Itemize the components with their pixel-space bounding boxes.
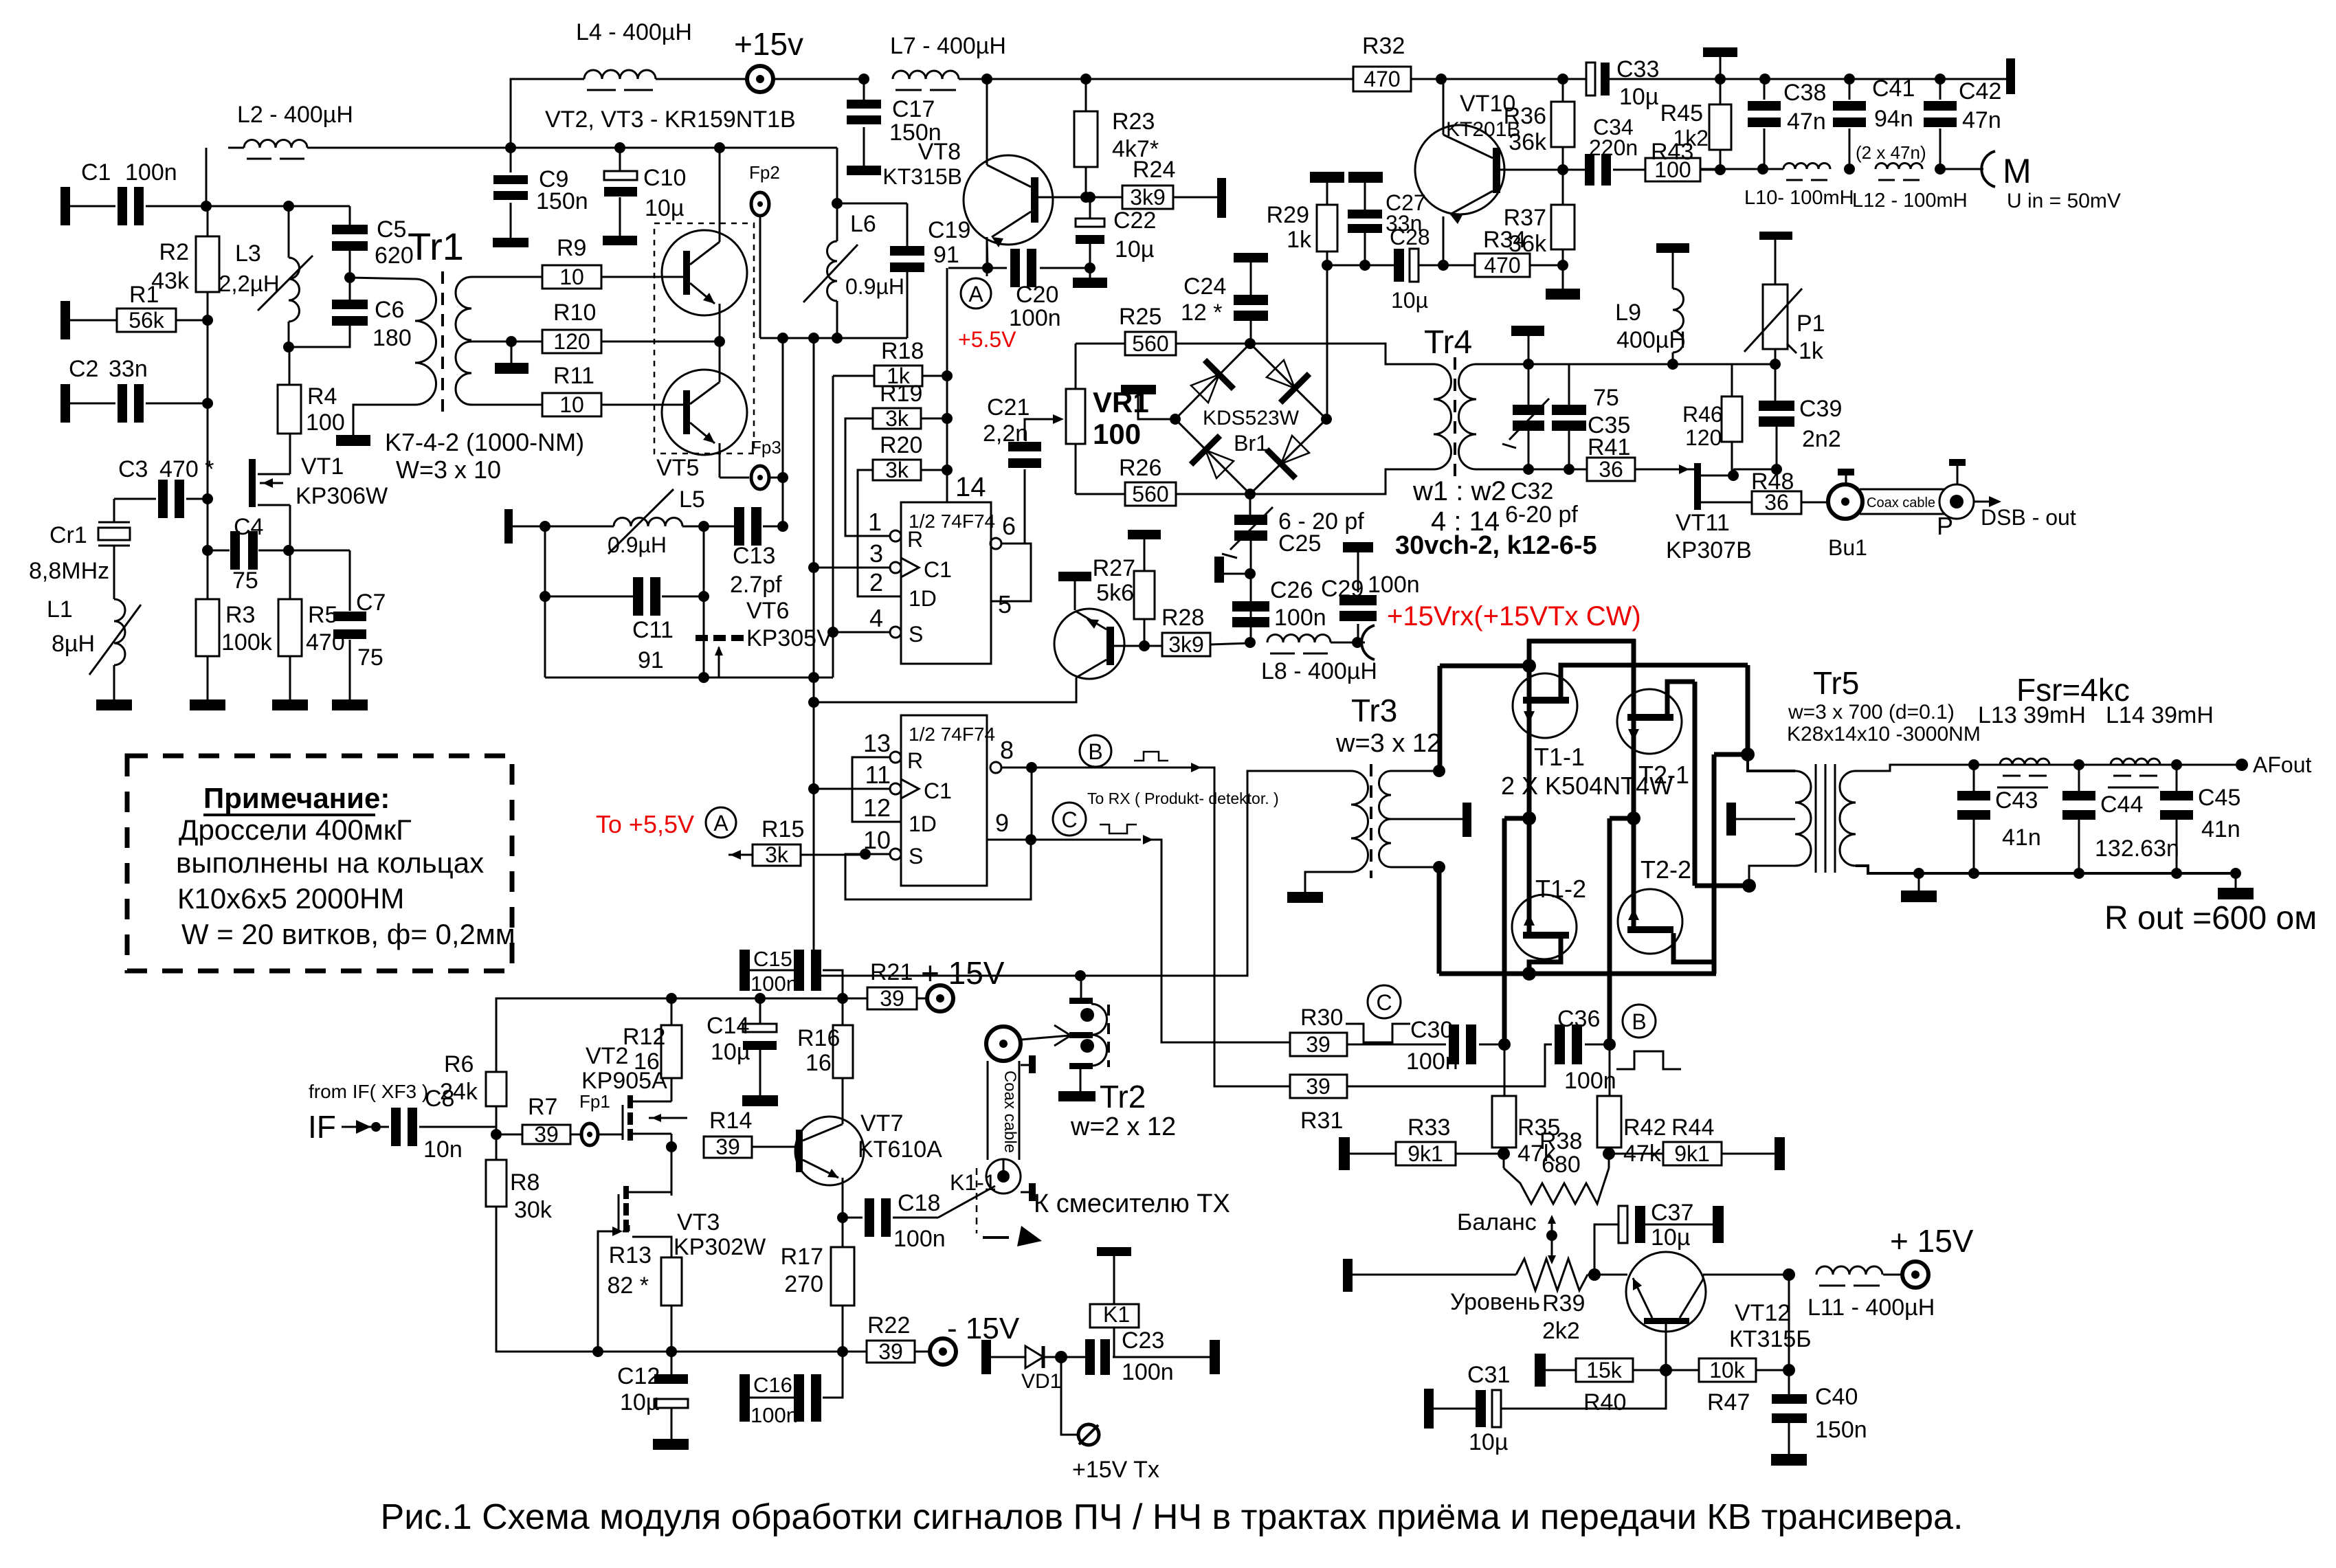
svg-text:S: S xyxy=(909,844,923,869)
wire pin3 to bus xyxy=(814,567,890,569)
svg-text:C37: C37 xyxy=(1651,1200,1693,1226)
capacitor C21 xyxy=(1008,442,1041,451)
ground C12 xyxy=(671,1409,673,1439)
svg-text:3k9: 3k9 xyxy=(1130,185,1166,210)
svg-text:100n: 100n xyxy=(1564,1068,1616,1094)
svg-text:30vch-2, k12-6-5: 30vch-2, k12-6-5 xyxy=(1395,531,1597,560)
svg-text:82 *: 82 * xyxy=(608,1273,649,1299)
wire VT6 column xyxy=(703,526,705,635)
ground R37 xyxy=(1562,265,1564,289)
node R36/R37 base xyxy=(1557,164,1568,175)
wire VT12 collector xyxy=(1702,1275,1704,1279)
svg-text:15k: 15k xyxy=(1586,1358,1623,1382)
svg-text:1/2 74F74: 1/2 74F74 xyxy=(909,724,995,745)
terminal bar above C29 xyxy=(1343,542,1373,552)
svg-text:R27: R27 xyxy=(1093,555,1135,581)
terminal stub left of C2 xyxy=(60,384,70,423)
svg-text:4: 4 xyxy=(869,604,883,632)
transformer Tr4 primary xyxy=(1434,364,1451,469)
node R23 rail xyxy=(1080,74,1091,85)
wire L2 left lead xyxy=(228,147,244,149)
resistor R47 xyxy=(1699,1358,1756,1382)
ground AF left xyxy=(1918,873,1920,891)
svg-text:L8 - 400µH: L8 - 400µH xyxy=(1261,658,1377,684)
wire R10 right xyxy=(601,341,720,343)
wire C21 bottom xyxy=(1024,469,1026,544)
wire VT1 source down xyxy=(289,550,291,568)
node R44/R42/R38 xyxy=(1603,1147,1615,1160)
svg-text:DSB - out: DSB - out xyxy=(1981,505,2076,530)
node VT12 base/R40/R47 xyxy=(1660,1364,1672,1376)
svg-text:3k: 3k xyxy=(765,842,789,867)
bridge diode D2 xyxy=(1267,360,1295,388)
svg-text:30k: 30k xyxy=(514,1197,553,1223)
svg-text:10k: 10k xyxy=(1709,1358,1746,1382)
wire Tr1 sec top to R9 xyxy=(471,276,542,278)
node C36/R42 xyxy=(1603,1038,1616,1051)
svg-text:36k: 36k xyxy=(1509,129,1547,155)
wire R7 left xyxy=(496,1134,522,1136)
wire R26 left xyxy=(1076,493,1125,495)
resistor R12 xyxy=(661,1025,682,1078)
svg-text:S: S xyxy=(909,622,923,647)
svg-text:1k: 1k xyxy=(1799,338,1824,364)
svg-text:120: 120 xyxy=(1685,425,1722,450)
resistor R31 xyxy=(1290,1075,1347,1098)
node C43 bottom xyxy=(1968,868,1979,879)
bus top link xyxy=(1527,639,1636,644)
svg-text:C3: C3 xyxy=(118,456,148,482)
node VT3 arrow tap xyxy=(592,1346,603,1357)
wire to C20 xyxy=(988,267,1007,269)
potentiometer P1 xyxy=(1763,284,1788,349)
capacitor C45 xyxy=(2160,791,2193,800)
wire C29 top xyxy=(1357,552,1359,592)
wire R3 top xyxy=(207,550,209,599)
node R15 junction xyxy=(860,849,871,860)
wire R40 right xyxy=(1633,1369,1666,1371)
capacitor C41 xyxy=(1833,101,1866,111)
svg-text:L1: L1 xyxy=(47,596,73,623)
node VT4 emitter / VT5 collector xyxy=(714,336,725,347)
wire L11 node down xyxy=(1788,1275,1790,1394)
U1 pin 1 R xyxy=(890,530,901,541)
svg-text:11: 11 xyxy=(865,761,891,789)
potentiometer R39 zigzag xyxy=(1516,1259,1588,1290)
wire pin8 out xyxy=(1001,767,1197,769)
terminal bar after R24 xyxy=(1217,178,1226,218)
terminal Fp3 xyxy=(751,466,769,489)
arrow to TX mixer xyxy=(983,1236,1009,1239)
svg-text:C1: C1 xyxy=(924,779,952,803)
svg-text:9k1: 9k1 xyxy=(1408,1141,1443,1166)
svg-text:M: M xyxy=(2003,152,2032,190)
svg-text:Tr4: Tr4 xyxy=(1424,324,1472,361)
coax cable body xyxy=(987,1061,989,1160)
svg-text:w1 : w2: w1 : w2 xyxy=(1412,476,1506,506)
node C14 xyxy=(755,993,766,1004)
node R13 rail xyxy=(666,1346,677,1357)
resistor R17 xyxy=(831,1247,854,1306)
node C44 bottom xyxy=(2073,868,2084,879)
resistor R42 xyxy=(1597,1096,1621,1147)
svg-text:+ 15V: + 15V xyxy=(1890,1223,1974,1259)
wire VT4 collector to rail xyxy=(719,148,721,234)
wire C2 right xyxy=(146,403,208,405)
terminal bar above C27 xyxy=(1348,172,1383,183)
wire R19 left xyxy=(845,418,890,536)
node VT10 rail xyxy=(1436,74,1447,85)
wire R6 top to +15 rail xyxy=(496,998,671,1072)
transformer Tr5 left winding xyxy=(1795,771,1811,866)
node bridge right xyxy=(1321,414,1332,425)
node Fp3 column y492 xyxy=(777,333,788,344)
svg-text:KT610A: KT610A xyxy=(858,1136,942,1163)
wire to M connector xyxy=(1940,168,1983,170)
svg-text:R2: R2 xyxy=(159,239,189,265)
rail +15V lower xyxy=(671,998,867,1000)
bus right down xyxy=(1746,665,1750,754)
wire L4 to +15v xyxy=(656,78,748,80)
wire Tr1 sec bottom to R11 xyxy=(471,404,542,406)
wire VD1 left xyxy=(991,1356,1025,1358)
resistor R27 xyxy=(1134,571,1155,619)
svg-text:6-20 pf: 6-20 pf xyxy=(1505,502,1578,528)
wire Fp3 right xyxy=(769,477,783,479)
wire C13 right xyxy=(763,526,783,528)
svg-text:33n: 33n xyxy=(109,356,148,382)
svg-text:R41: R41 xyxy=(1588,434,1630,460)
terminal bar above L9 xyxy=(1656,243,1689,253)
wire bottom rail to L10 xyxy=(1732,168,1783,170)
svg-text:C16: C16 xyxy=(753,1373,792,1397)
svg-text:C4: C4 xyxy=(234,514,263,540)
wire R8 bottom xyxy=(496,1207,671,1352)
svg-text:10n: 10n xyxy=(423,1136,463,1163)
capacitor C10 electrolytic xyxy=(604,171,637,180)
svg-text:6: 6 xyxy=(1002,512,1016,540)
wire L8 right xyxy=(1331,642,1365,644)
svg-text:W = 20 витков, ф= 0,2мм: W = 20 витков, ф= 0,2мм xyxy=(181,918,515,950)
wire R41 right to VT11 gate xyxy=(1635,469,1694,471)
wire C7 top xyxy=(349,550,351,611)
connector M arc xyxy=(1981,151,1995,187)
svg-text:R39: R39 xyxy=(1542,1290,1585,1317)
svg-text:C: C xyxy=(1376,990,1392,1015)
wire L6 tank top xyxy=(837,203,907,205)
svg-text:R47: R47 xyxy=(1707,1389,1750,1415)
wire R29 bottom xyxy=(1326,251,1328,265)
capacitor C28 electrolytic xyxy=(1394,249,1404,282)
svg-text:Tr1: Tr1 xyxy=(408,225,464,268)
wire R12 top xyxy=(671,998,673,1025)
svg-text:K1: K1 xyxy=(1103,1302,1130,1327)
svg-text:R21: R21 xyxy=(870,959,913,985)
node C13 right xyxy=(777,521,788,532)
bus left gate T1 xyxy=(1440,664,1529,669)
dashed outline VT4-VT5 xyxy=(654,223,754,453)
svg-text:1k: 1k xyxy=(1287,227,1312,253)
svg-text:Дроссели 400мкГ: Дроссели 400мкГ xyxy=(179,814,412,846)
svg-text:VT2, VT3 - KR159NT1B: VT2, VT3 - KR159NT1B xyxy=(545,107,796,133)
svg-text:Tr2: Tr2 xyxy=(1100,1079,1146,1115)
VT6 source lead xyxy=(703,641,705,677)
wire C25 down xyxy=(1250,540,1252,642)
wire VT7 emitter down xyxy=(842,1178,844,1218)
resistor R14 xyxy=(704,1136,752,1158)
svg-text:A: A xyxy=(713,811,728,836)
coax terminal top xyxy=(1021,1064,1029,1066)
wire A node row xyxy=(948,267,988,269)
resistor R16 xyxy=(833,1025,853,1078)
svg-text:VT2: VT2 xyxy=(586,1043,628,1069)
svg-text:P1: P1 xyxy=(1797,311,1825,337)
VT11 leads xyxy=(1701,475,1733,477)
wire C36 right xyxy=(1585,1044,1610,1046)
wire R1 node down to C2 node xyxy=(207,320,209,403)
svg-text:3k: 3k xyxy=(885,406,909,431)
node R4 bottom / C4 right column xyxy=(283,545,294,556)
terminal Fp2 xyxy=(751,192,769,216)
bus right gate T1-1 xyxy=(1561,665,1748,701)
node C4 left xyxy=(202,545,213,556)
svg-text:C1: C1 xyxy=(924,557,952,582)
terminal bar above R29 xyxy=(1310,172,1344,183)
svg-text:560: 560 xyxy=(1132,482,1168,506)
resistor R33 xyxy=(1396,1142,1456,1165)
svg-text:100n: 100n xyxy=(893,1226,946,1252)
svg-text:w=2 x 12: w=2 x 12 xyxy=(1070,1112,1176,1141)
svg-text:75: 75 xyxy=(357,645,383,671)
svg-text:100n: 100n xyxy=(125,159,177,186)
node A circle xyxy=(961,278,991,309)
wire VT2 drain up through R12 xyxy=(671,1078,673,1101)
wire C37 drop xyxy=(1594,1224,1618,1275)
wire R16 top xyxy=(842,998,844,1025)
svg-text:K7-4-2 (1000-NM): K7-4-2 (1000-NM) xyxy=(385,428,584,456)
svg-text:2,2n: 2,2n xyxy=(983,421,1028,447)
wire R9 to VT4 base xyxy=(601,276,683,278)
wire R13 top xyxy=(632,1237,671,1257)
inductor L11 xyxy=(1816,1266,1882,1275)
ground Tr3 xyxy=(1287,892,1323,903)
U2 pin 13 R xyxy=(890,752,901,763)
svg-text:R32: R32 xyxy=(1362,33,1405,59)
svg-text:400µH: 400µH xyxy=(1616,327,1686,353)
svg-text:C25: C25 xyxy=(1278,530,1321,557)
svg-text:L7 - 400µH: L7 - 400µH xyxy=(890,33,1006,59)
svg-text:B: B xyxy=(1088,739,1102,764)
resistor R41 xyxy=(1587,458,1635,481)
svg-text:3k: 3k xyxy=(885,458,909,482)
svg-text:R34: R34 xyxy=(1483,227,1526,253)
node C2 xyxy=(202,398,213,409)
inductor L14 xyxy=(2111,759,2160,765)
node C45 bottom xyxy=(2171,868,2182,879)
node R16 rail xyxy=(837,993,848,1004)
clock rail y986 xyxy=(545,677,833,679)
node L5/x793 xyxy=(539,521,550,532)
wire R26 right xyxy=(1176,493,1250,495)
svg-text:R45: R45 xyxy=(1660,100,1703,126)
wire pin11 to bus xyxy=(814,788,890,790)
svg-text:U in = 50mV: U in = 50mV xyxy=(2007,190,2121,212)
node Fp3 column xyxy=(777,472,788,483)
svg-text:R16: R16 xyxy=(797,1025,840,1051)
ground Tr1 xyxy=(336,435,370,446)
svg-text:L6: L6 xyxy=(850,211,876,237)
inductor L1 variable xyxy=(114,599,125,665)
wire C37 right xyxy=(1645,1224,1713,1226)
resistor R7 xyxy=(522,1125,570,1144)
wire clock row y492 xyxy=(760,337,907,339)
node R1/R2 xyxy=(202,315,213,326)
svg-text:R10: R10 xyxy=(553,300,596,326)
potentiometer R38 zigzag xyxy=(1504,1168,1609,1204)
svg-text:KP302W: KP302W xyxy=(674,1234,766,1260)
wire R43 right xyxy=(1701,169,1720,171)
svg-text:2 X K504NT4W: 2 X K504NT4W xyxy=(1501,772,1673,800)
svg-text:0.9µH: 0.9µH xyxy=(845,274,904,299)
inductor L4 xyxy=(584,70,656,79)
terminal bar left of R39 xyxy=(1343,1259,1353,1292)
wire L2 to rail xyxy=(307,147,837,149)
svg-text:C12: C12 xyxy=(617,1363,660,1389)
wire to R18 bus xyxy=(946,268,948,376)
svg-text:C26: C26 xyxy=(1270,577,1313,603)
resistor R1 xyxy=(117,309,176,332)
svg-text:C23: C23 xyxy=(1122,1328,1164,1354)
svg-text:L4 - 400µH: L4 - 400µH xyxy=(576,19,692,45)
svg-text:47n: 47n xyxy=(1787,109,1826,135)
wire +15v to C17 node xyxy=(772,78,864,80)
ground Tr2 xyxy=(1058,1091,1095,1101)
svg-text:2: 2 xyxy=(869,568,883,596)
terminal bar left of R40 xyxy=(1535,1354,1546,1387)
svg-text:C40: C40 xyxy=(1815,1384,1858,1410)
svg-text:120: 120 xyxy=(553,329,590,354)
bridge diode D1 xyxy=(1191,374,1219,403)
wire R33 right xyxy=(1456,1153,1504,1155)
bus T2 column xyxy=(1632,639,1636,929)
pulse glyph B lower xyxy=(1616,1051,1681,1069)
svg-text:C45: C45 xyxy=(2198,785,2240,811)
svg-text:R31: R31 xyxy=(1300,1108,1343,1134)
wire C20 right xyxy=(1040,267,1090,269)
inductor L12 xyxy=(1876,164,1922,170)
capacitor C26 xyxy=(1232,601,1269,612)
svg-text:+15V Tx: +15V Tx xyxy=(1072,1457,1159,1483)
VT10 base wire xyxy=(1500,169,1586,171)
svg-text:150n: 150n xyxy=(1815,1417,1867,1443)
node AFout xyxy=(2236,759,2248,771)
node C10 rail xyxy=(614,142,625,153)
wire VR1 bottom xyxy=(1075,444,1077,494)
inductor L9 xyxy=(1673,289,1684,352)
svg-text:R48: R48 xyxy=(1751,469,1794,495)
node L11 xyxy=(1783,1268,1795,1281)
capacitor C33 electrolytic xyxy=(1586,63,1595,96)
main bus x1184 xyxy=(813,338,815,976)
wire C6 top xyxy=(349,278,351,303)
svg-text:560: 560 xyxy=(1132,331,1168,356)
resistor R26 xyxy=(1125,482,1176,506)
svg-text:2k2: 2k2 xyxy=(1542,1318,1580,1344)
svg-text:K1-1: K1-1 xyxy=(950,1170,997,1195)
note box dashed xyxy=(127,756,512,971)
svg-text:выполнены на кольцах: выполнены на кольцах xyxy=(176,847,484,879)
svg-text:14: 14 xyxy=(955,472,986,502)
wire to R22 xyxy=(843,1351,867,1353)
resistor R44 xyxy=(1663,1142,1722,1165)
wire gate node down to C4 node xyxy=(207,499,209,550)
potentiometer VR1 xyxy=(1066,389,1085,444)
svg-text:56k: 56k xyxy=(129,308,165,333)
wire C4 node to R3/R5 tee xyxy=(289,550,350,552)
svg-text:C22: C22 xyxy=(1113,208,1156,234)
node L6 bottom xyxy=(832,333,843,344)
transformer Tr4 secondary xyxy=(1459,364,1477,469)
ground AF right xyxy=(2235,873,2237,888)
node R36 rail xyxy=(1557,74,1568,85)
resistor R25 xyxy=(1125,332,1176,355)
svg-text:16: 16 xyxy=(805,1050,832,1076)
wire pin6 loop to pin5 xyxy=(991,544,1031,601)
wire pin13-pin12 tie xyxy=(852,757,901,822)
coax cable lines xyxy=(1860,489,1945,491)
node C20 right xyxy=(1084,262,1095,273)
wire C27 node row xyxy=(1327,265,1394,267)
node R20 right xyxy=(942,464,953,475)
node VT6 bottom rail xyxy=(698,672,709,683)
svg-text:R24: R24 xyxy=(1133,157,1175,183)
wire R13 bottom xyxy=(671,1306,673,1352)
wire bar to left node xyxy=(1138,394,1175,419)
svg-text:L13 39mH: L13 39mH xyxy=(1978,702,2086,728)
svg-text:41n: 41n xyxy=(2002,825,2041,851)
node VT10 emitter / C28 / R34 xyxy=(1438,260,1449,271)
wire Tr4 top row extension xyxy=(1569,363,1775,366)
svg-text:KDS523W: KDS523W xyxy=(1203,407,1300,429)
wire R27 top xyxy=(1144,539,1146,571)
svg-text:R4: R4 xyxy=(307,383,337,410)
svg-text:VT5: VT5 xyxy=(656,455,699,481)
svg-text:To RX ( Produkt- detektor. ): To RX ( Produkt- detektor. ) xyxy=(1087,789,1279,807)
svg-text:94n: 94n xyxy=(1874,106,1913,132)
node C43 top xyxy=(1968,759,1979,770)
capacitor C30 xyxy=(1449,1024,1459,1064)
node AF gnd right xyxy=(2230,868,2241,879)
inductor L6 variable xyxy=(827,241,838,301)
svg-text:1D: 1D xyxy=(909,811,937,836)
svg-text:680: 680 xyxy=(1542,1152,1581,1178)
svg-text:R29: R29 xyxy=(1267,202,1309,228)
wire bridge top to Tr4 xyxy=(1250,344,1434,364)
svg-text:36: 36 xyxy=(1599,457,1623,482)
wire C17 stem xyxy=(863,79,865,100)
wire C21 top to VR1 wiper xyxy=(1025,419,1054,440)
wire C1 to node xyxy=(146,205,350,208)
wire R20 left xyxy=(858,470,901,596)
node P1/C39 xyxy=(1770,359,1781,370)
svg-text:Примечание:: Примечание: xyxy=(203,782,390,814)
svg-text:75: 75 xyxy=(232,568,258,594)
coax top circle xyxy=(986,1027,1021,1061)
wire R25 right xyxy=(1176,343,1250,345)
svg-text:R25: R25 xyxy=(1119,304,1161,330)
terminal bar right of R44 xyxy=(1775,1137,1785,1170)
capacitor C1 xyxy=(118,187,127,225)
